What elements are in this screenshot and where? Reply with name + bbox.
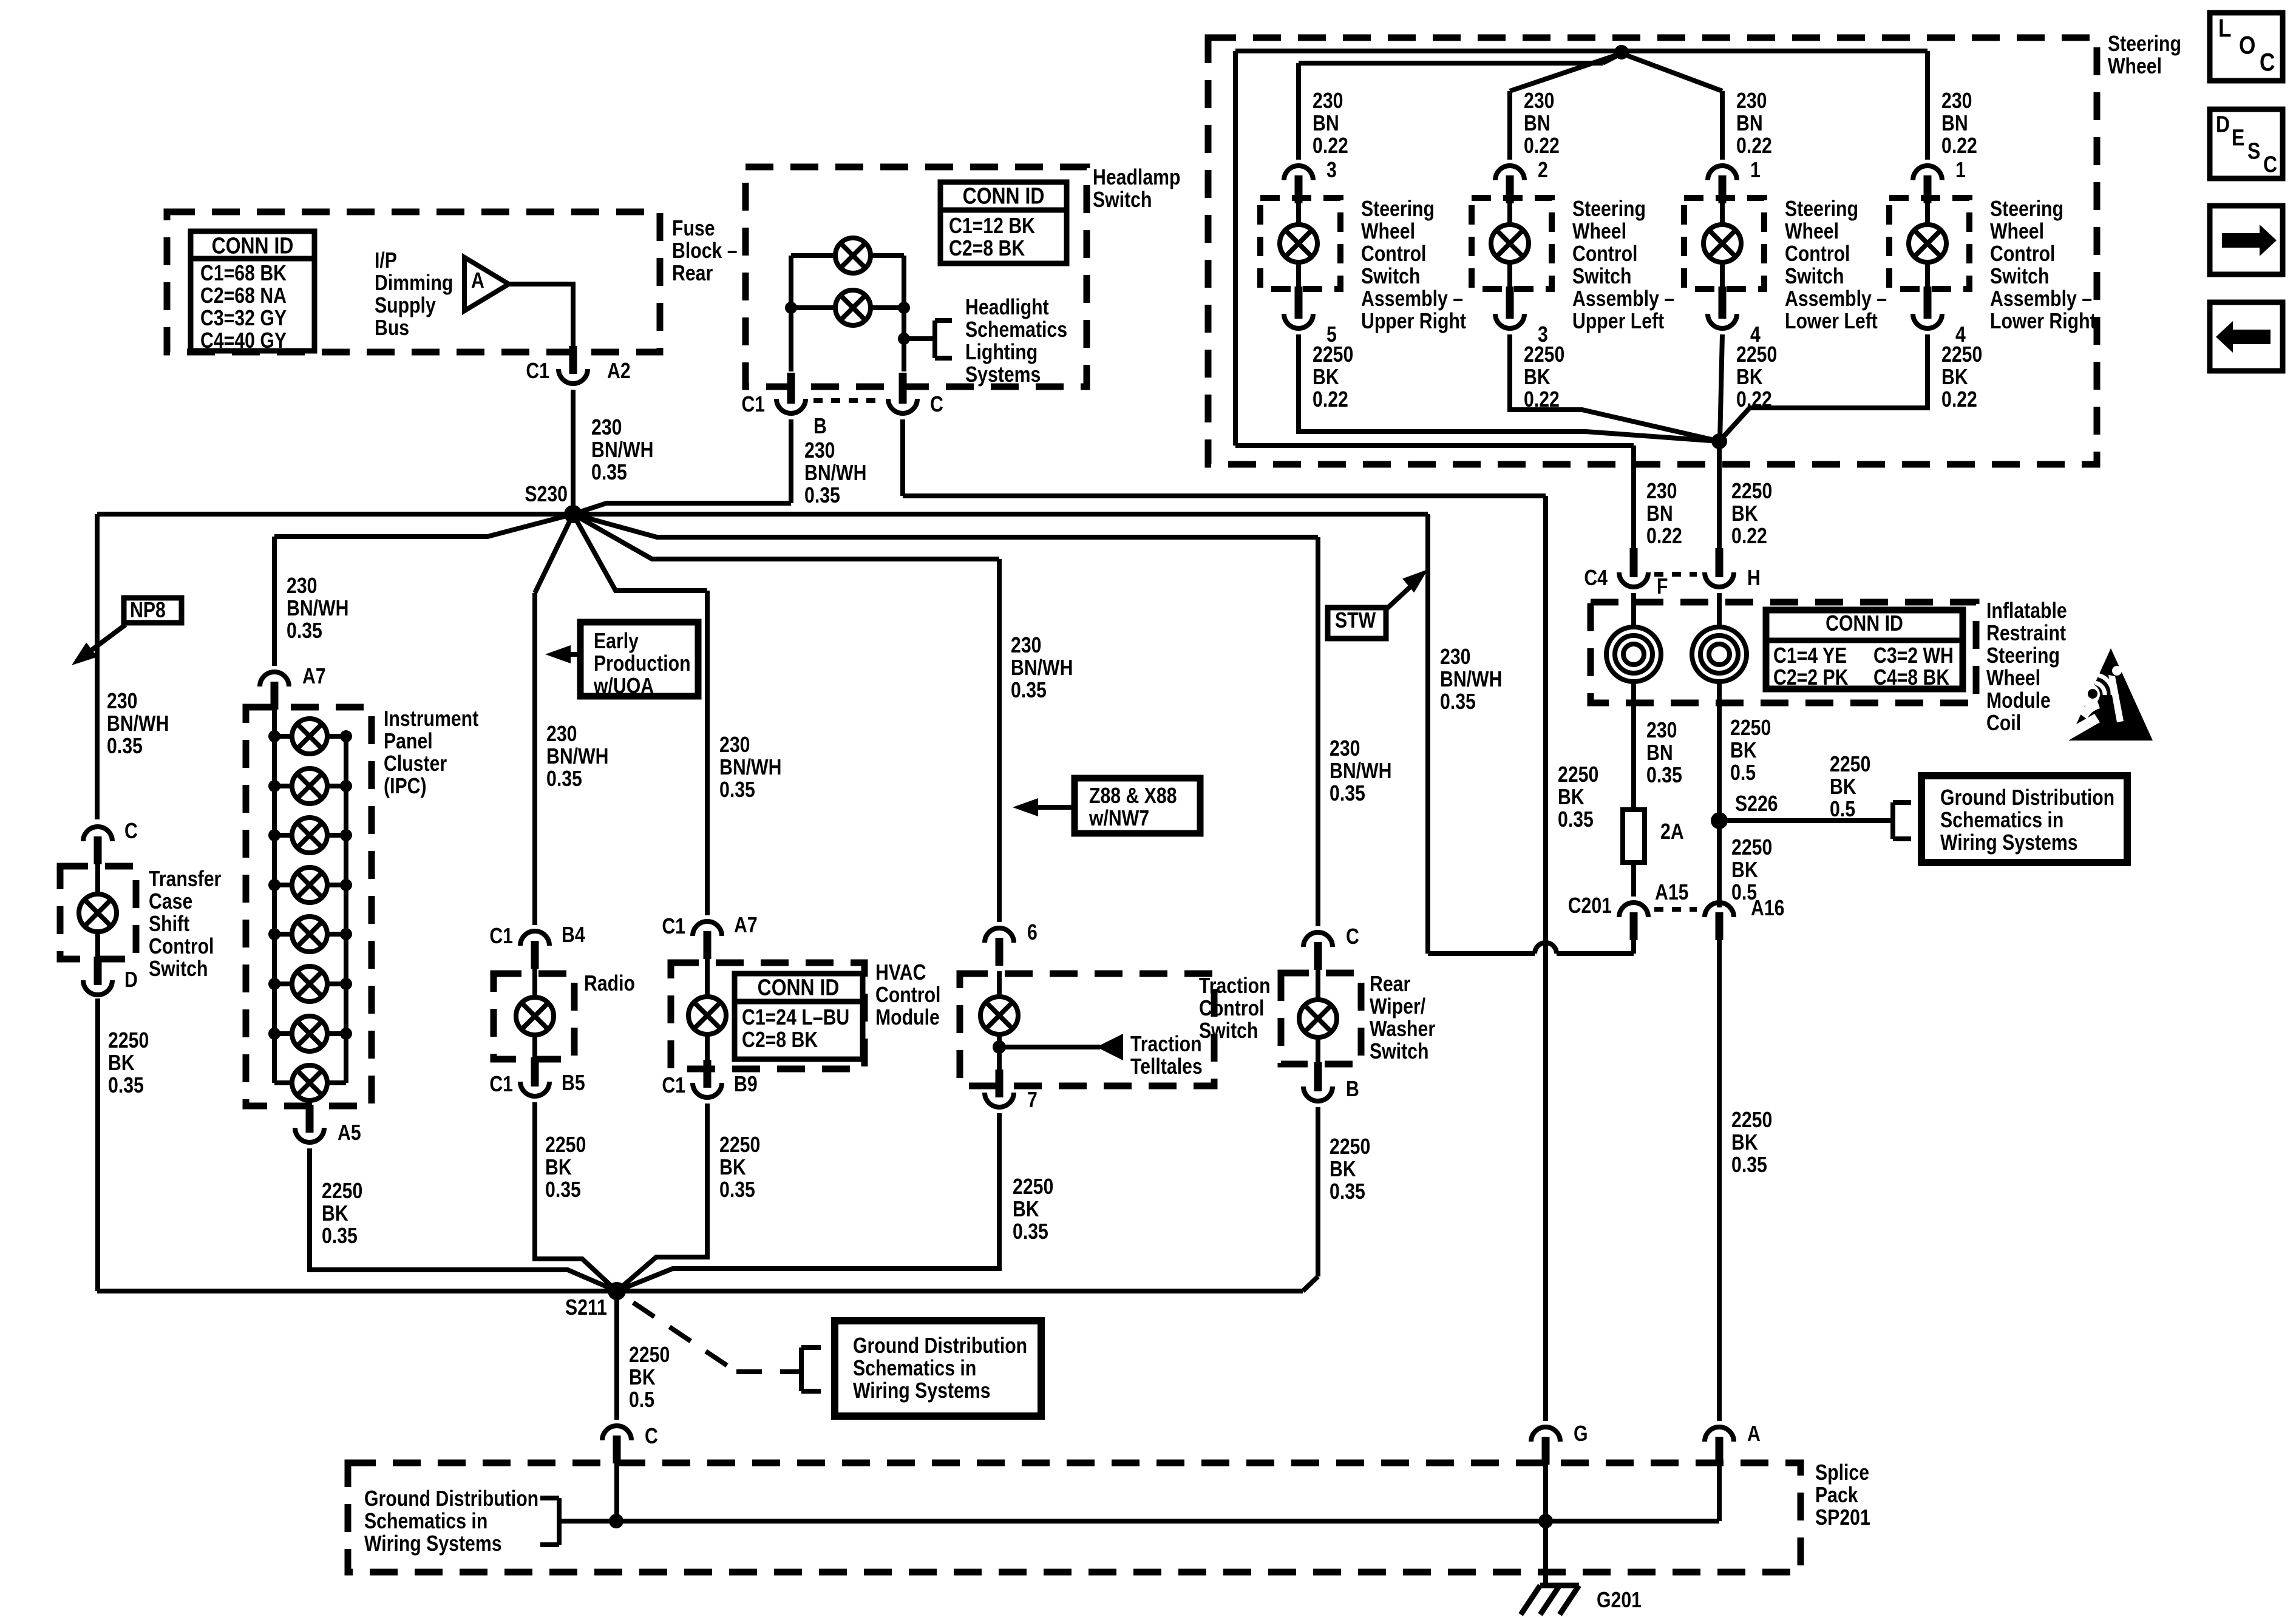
svg-text:C1: C1 — [489, 1073, 513, 1097]
svg-text:Lower Left: Lower Left — [1785, 310, 1878, 334]
svg-text:2250: 2250 — [322, 1179, 362, 1204]
svg-text:BK: BK — [1731, 502, 1758, 526]
svg-text:C1: C1 — [489, 924, 513, 949]
svg-text:BN/WH: BN/WH — [719, 756, 781, 780]
svg-text:Traction: Traction — [1199, 974, 1271, 998]
svg-text:0.22: 0.22 — [1736, 134, 1772, 158]
svg-text:2250: 2250 — [1731, 1108, 1772, 1133]
svg-text:Cluster: Cluster — [384, 752, 447, 776]
svg-text:Control: Control — [1990, 242, 2055, 266]
svg-text:Control: Control — [1361, 242, 1426, 266]
svg-text:Module: Module — [875, 1006, 940, 1030]
svg-text:HVAC: HVAC — [875, 961, 926, 985]
svg-text:230: 230 — [1524, 89, 1554, 114]
svg-text:BN/WH: BN/WH — [591, 438, 653, 463]
svg-text:BK: BK — [545, 1156, 572, 1180]
svg-text:Wheel: Wheel — [1572, 220, 1626, 244]
svg-text:1: 1 — [1750, 158, 1761, 183]
svg-text:0.35: 0.35 — [1330, 782, 1365, 806]
svg-text:2250: 2250 — [719, 1133, 760, 1158]
svg-text:Lower Right: Lower Right — [1990, 310, 2096, 334]
svg-text:0.22: 0.22 — [1941, 388, 1977, 412]
svg-text:C1=4 YE: C1=4 YE — [1773, 644, 1847, 668]
svg-text:BK: BK — [1731, 1131, 1758, 1155]
svg-text:2250: 2250 — [1731, 836, 1772, 860]
svg-text:0.35: 0.35 — [1731, 1153, 1767, 1178]
svg-text:230: 230 — [1646, 480, 1677, 504]
svg-text:C3=2 WH: C3=2 WH — [1873, 644, 1954, 668]
svg-text:BK: BK — [719, 1156, 746, 1180]
svg-text:B9: B9 — [734, 1073, 758, 1097]
svg-text:C3=32 GY: C3=32 GY — [200, 307, 287, 331]
svg-text:A: A — [1747, 1422, 1761, 1446]
svg-text:Control: Control — [1199, 997, 1264, 1021]
svg-text:0.35: 0.35 — [591, 461, 627, 485]
svg-text:Ground Distribution: Ground Distribution — [364, 1487, 538, 1511]
svg-text:(IPC): (IPC) — [384, 775, 427, 799]
svg-text:Ground Distribution: Ground Distribution — [1940, 786, 2114, 810]
svg-text:Block –: Block – — [672, 239, 738, 263]
svg-text:7: 7 — [1027, 1088, 1038, 1113]
svg-text:2250: 2250 — [1013, 1175, 1053, 1199]
svg-text:2250: 2250 — [1731, 480, 1772, 504]
svg-text:Lighting: Lighting — [965, 341, 1038, 365]
svg-text:0.35: 0.35 — [1646, 764, 1682, 788]
svg-text:B5: B5 — [562, 1071, 585, 1096]
svg-text:Washer: Washer — [1370, 1017, 1435, 1042]
svg-text:Control: Control — [149, 935, 214, 959]
svg-text:Steering: Steering — [1986, 644, 2060, 668]
svg-text:2250: 2250 — [1558, 763, 1598, 787]
svg-text:230: 230 — [1011, 634, 1041, 658]
svg-text:C2=2 PK: C2=2 PK — [1773, 666, 1849, 690]
svg-text:D: D — [124, 968, 138, 992]
svg-text:1: 1 — [1955, 158, 1966, 183]
svg-text:0.35: 0.35 — [719, 778, 755, 802]
svg-text:0.5: 0.5 — [1830, 798, 1855, 822]
svg-text:BN: BN — [1524, 112, 1550, 136]
svg-text:Assembly –: Assembly – — [1785, 287, 1887, 311]
svg-text:BK: BK — [1830, 775, 1856, 799]
svg-text:BK: BK — [1013, 1198, 1039, 1222]
svg-text:230: 230 — [1941, 89, 1972, 114]
svg-text:BK: BK — [1941, 365, 1968, 390]
svg-text:w/UQA: w/UQA — [593, 674, 654, 699]
svg-text:Switch: Switch — [1785, 265, 1844, 289]
svg-text:D: D — [2216, 112, 2230, 137]
svg-text:230: 230 — [1736, 89, 1767, 114]
svg-text:Wiring Systems: Wiring Systems — [364, 1532, 502, 1556]
svg-text:230: 230 — [1313, 89, 1343, 114]
svg-text:0.35: 0.35 — [1440, 690, 1476, 714]
svg-text:Schematics in: Schematics in — [364, 1510, 487, 1534]
svg-text:Wheel: Wheel — [1361, 220, 1415, 244]
svg-text:Steering: Steering — [1572, 197, 1646, 222]
svg-text:E: E — [2232, 125, 2244, 151]
svg-text:L: L — [2218, 15, 2232, 43]
svg-text:Wiring Systems: Wiring Systems — [1940, 831, 2078, 855]
svg-text:230: 230 — [287, 574, 317, 598]
svg-text:BK: BK — [1731, 858, 1758, 883]
svg-text:F: F — [1657, 575, 1668, 599]
svg-text:0.22: 0.22 — [1313, 388, 1348, 412]
svg-text:Transfer: Transfer — [149, 867, 221, 892]
svg-text:2: 2 — [1538, 158, 1548, 183]
svg-text:BK: BK — [108, 1051, 135, 1076]
svg-text:2250: 2250 — [1313, 343, 1353, 367]
svg-text:A15: A15 — [1655, 881, 1688, 905]
svg-text:S226: S226 — [1735, 792, 1778, 816]
svg-text:230: 230 — [107, 690, 137, 714]
svg-text:Wiring Systems: Wiring Systems — [853, 1379, 991, 1403]
svg-text:C4=40 GY: C4=40 GY — [200, 329, 287, 353]
svg-text:Assembly –: Assembly – — [1361, 287, 1463, 311]
svg-text:Control: Control — [1785, 242, 1850, 266]
svg-text:230: 230 — [591, 416, 622, 440]
svg-text:Inflatable: Inflatable — [1986, 599, 2067, 623]
svg-text:A16: A16 — [1751, 897, 1784, 921]
svg-text:A7: A7 — [302, 665, 326, 689]
svg-text:Wheel: Wheel — [2108, 55, 2162, 79]
svg-text:Module: Module — [1986, 689, 2051, 713]
svg-text:Traction: Traction — [1130, 1032, 1202, 1057]
svg-text:BK: BK — [629, 1366, 656, 1390]
svg-text:2250: 2250 — [1730, 716, 1771, 741]
svg-text:0.22: 0.22 — [1646, 524, 1682, 549]
svg-text:Splice: Splice — [1815, 1461, 1869, 1485]
svg-text:Steering: Steering — [1361, 197, 1435, 222]
svg-text:0.35: 0.35 — [1013, 1220, 1048, 1244]
svg-text:Dimming: Dimming — [375, 271, 453, 296]
svg-text:0.5: 0.5 — [629, 1388, 654, 1412]
svg-text:BN/WH: BN/WH — [1011, 656, 1073, 680]
svg-text:Headlight: Headlight — [965, 296, 1049, 320]
svg-text:C2=8 BK: C2=8 BK — [949, 237, 1025, 261]
svg-text:C1=24 L–BU: C1=24 L–BU — [742, 1006, 849, 1030]
svg-text:0.35: 0.35 — [1011, 679, 1047, 703]
svg-text:Supply: Supply — [375, 294, 436, 318]
svg-text:C2=68 NA: C2=68 NA — [200, 284, 287, 308]
svg-text:Schematics in: Schematics in — [1940, 808, 2063, 833]
svg-text:BN/WH: BN/WH — [1440, 668, 1502, 692]
svg-text:2A: 2A — [1660, 820, 1684, 844]
svg-text:230: 230 — [1440, 645, 1470, 670]
svg-text:C: C — [124, 819, 138, 844]
svg-text:C4: C4 — [1584, 566, 1608, 591]
svg-text:Wiper/: Wiper/ — [1370, 995, 1425, 1019]
svg-text:BN: BN — [1646, 502, 1673, 526]
svg-text:CONN ID: CONN ID — [963, 183, 1045, 209]
svg-text:CONN ID: CONN ID — [212, 233, 294, 259]
svg-text:Bus: Bus — [375, 316, 409, 341]
svg-text:0.35: 0.35 — [804, 484, 840, 508]
svg-text:O: O — [2239, 32, 2255, 60]
svg-text:Case: Case — [149, 890, 192, 914]
svg-text:Fuse: Fuse — [672, 217, 715, 241]
svg-text:w/NW7: w/NW7 — [1089, 807, 1149, 831]
svg-text:Switch: Switch — [1093, 188, 1152, 212]
svg-text:2250: 2250 — [1830, 753, 1870, 777]
svg-text:0.35: 0.35 — [322, 1224, 358, 1249]
svg-text:C1=68 BK: C1=68 BK — [200, 262, 287, 286]
svg-text:Telltales: Telltales — [1130, 1055, 1203, 1079]
svg-text:Pack: Pack — [1815, 1483, 1858, 1508]
svg-text:0.35: 0.35 — [545, 1178, 581, 1202]
svg-text:0.35: 0.35 — [1558, 808, 1594, 832]
svg-text:Steering: Steering — [2108, 32, 2181, 56]
svg-text:BN: BN — [1313, 112, 1339, 136]
svg-text:230: 230 — [1646, 719, 1677, 743]
svg-text:Radio: Radio — [584, 972, 635, 996]
svg-text:S211: S211 — [565, 1296, 607, 1320]
svg-text:230: 230 — [719, 733, 750, 758]
svg-text:6: 6 — [1027, 921, 1038, 945]
svg-text:0.22: 0.22 — [1524, 134, 1560, 158]
svg-text:230: 230 — [1330, 737, 1360, 761]
svg-text:Headlamp: Headlamp — [1093, 166, 1180, 190]
svg-text:Upper Left: Upper Left — [1572, 310, 1664, 334]
svg-text:0.35: 0.35 — [107, 734, 143, 759]
svg-text:BK: BK — [1524, 365, 1550, 390]
svg-text:Production: Production — [594, 652, 691, 676]
svg-text:Schematics in: Schematics in — [853, 1357, 976, 1381]
svg-text:SP201: SP201 — [1815, 1506, 1870, 1530]
svg-text:C: C — [2263, 152, 2277, 177]
svg-text:Early: Early — [594, 629, 639, 654]
svg-text:2250: 2250 — [1330, 1135, 1370, 1159]
svg-text:Wheel: Wheel — [1986, 666, 2040, 691]
svg-text:Systems: Systems — [965, 363, 1041, 387]
svg-text:C1=12 BK: C1=12 BK — [949, 214, 1035, 239]
svg-text:Panel: Panel — [384, 730, 433, 754]
svg-text:BN/WH: BN/WH — [804, 461, 866, 486]
svg-text:0.22: 0.22 — [1941, 134, 1977, 158]
svg-text:Steering: Steering — [1990, 197, 2063, 222]
svg-text:0.35: 0.35 — [546, 767, 582, 792]
svg-text:0.22: 0.22 — [1731, 524, 1767, 549]
svg-text:2250: 2250 — [629, 1343, 670, 1368]
svg-text:3: 3 — [1326, 158, 1337, 183]
svg-text:Switch: Switch — [1990, 265, 2049, 289]
svg-text:BN/WH: BN/WH — [546, 745, 608, 769]
svg-text:H: H — [1747, 566, 1761, 591]
svg-text:C1: C1 — [662, 915, 685, 939]
svg-text:C2=8 BK: C2=8 BK — [742, 1028, 818, 1053]
svg-text:A2: A2 — [607, 359, 631, 384]
svg-text:BN/WH: BN/WH — [287, 597, 348, 621]
svg-text:BN/WH: BN/WH — [1330, 759, 1391, 784]
svg-text:BK: BK — [1313, 365, 1339, 390]
svg-text:Switch: Switch — [1370, 1040, 1428, 1064]
svg-text:B: B — [813, 415, 827, 439]
svg-text:BN: BN — [1941, 112, 1968, 136]
svg-text:C: C — [930, 393, 943, 417]
svg-text:BK: BK — [1558, 785, 1584, 810]
svg-text:Wheel: Wheel — [1785, 220, 1839, 244]
svg-text:BN: BN — [1646, 741, 1673, 765]
svg-text:CONN ID: CONN ID — [758, 975, 840, 1000]
svg-text:C1: C1 — [526, 359, 549, 384]
svg-text:0.35: 0.35 — [287, 619, 322, 643]
svg-text:C: C — [645, 1425, 658, 1449]
svg-text:B: B — [1346, 1077, 1359, 1102]
svg-text:Assembly –: Assembly – — [1990, 287, 2092, 311]
svg-text:C: C — [1346, 925, 1359, 949]
svg-text:2250: 2250 — [108, 1029, 149, 1053]
svg-text:BN: BN — [1736, 112, 1763, 136]
svg-text:BK: BK — [1330, 1158, 1356, 1182]
svg-text:Z88 & X88: Z88 & X88 — [1089, 784, 1177, 808]
svg-text:Restraint: Restraint — [1986, 622, 2066, 646]
svg-text:Rear: Rear — [672, 262, 713, 286]
svg-text:A7: A7 — [734, 914, 758, 938]
svg-text:Switch: Switch — [149, 957, 208, 981]
svg-text:Switch: Switch — [1572, 265, 1631, 289]
svg-text:Instrument: Instrument — [384, 707, 478, 731]
svg-text:BK: BK — [1736, 365, 1763, 390]
svg-text:C: C — [2260, 49, 2275, 77]
svg-text:0.35: 0.35 — [719, 1178, 755, 1202]
svg-text:Shift: Shift — [149, 912, 189, 937]
svg-text:BK: BK — [322, 1202, 348, 1226]
svg-text:2250: 2250 — [1524, 343, 1564, 367]
svg-text:C4=8 BK: C4=8 BK — [1873, 666, 1949, 690]
svg-text:Control: Control — [1572, 242, 1637, 266]
svg-text:Assembly –: Assembly – — [1572, 287, 1674, 311]
svg-text:C1: C1 — [662, 1074, 685, 1098]
svg-text:Rear: Rear — [1370, 972, 1410, 997]
svg-text:B4: B4 — [562, 923, 585, 947]
svg-text:2250: 2250 — [1736, 343, 1777, 367]
svg-text:2250: 2250 — [1941, 343, 1982, 367]
svg-text:C201: C201 — [1568, 894, 1612, 918]
svg-text:A5: A5 — [338, 1121, 361, 1145]
svg-text:Ground Distribution: Ground Distribution — [853, 1334, 1027, 1358]
svg-text:NP8: NP8 — [130, 598, 166, 623]
svg-text:0.35: 0.35 — [108, 1074, 144, 1098]
svg-text:0.5: 0.5 — [1730, 761, 1756, 785]
svg-text:230: 230 — [804, 439, 835, 463]
svg-text:0.22: 0.22 — [1313, 134, 1348, 158]
svg-text:Control: Control — [875, 983, 940, 1008]
svg-text:Switch: Switch — [1361, 265, 1420, 289]
svg-text:BN/WH: BN/WH — [107, 712, 169, 736]
svg-text:STW: STW — [1335, 609, 1376, 633]
svg-text:A: A — [471, 269, 484, 293]
svg-text:I/P: I/P — [375, 249, 397, 273]
svg-text:Schematics: Schematics — [965, 318, 1067, 342]
svg-text:G201: G201 — [1597, 1588, 1642, 1613]
svg-text:G: G — [1574, 1422, 1588, 1446]
svg-text:CONN ID: CONN ID — [1826, 612, 1903, 636]
svg-text:Coil: Coil — [1986, 711, 2021, 736]
svg-text:BK: BK — [1730, 739, 1757, 763]
svg-text:230: 230 — [546, 722, 577, 747]
svg-text:Switch: Switch — [1199, 1019, 1258, 1043]
svg-text:Wheel: Wheel — [1990, 220, 2044, 244]
svg-text:S: S — [2247, 138, 2260, 164]
svg-text:Steering: Steering — [1785, 197, 1858, 222]
svg-text:Upper Right: Upper Right — [1361, 310, 1466, 334]
svg-text:C1: C1 — [741, 393, 765, 417]
svg-text:2250: 2250 — [545, 1133, 586, 1158]
svg-text:0.35: 0.35 — [1330, 1180, 1365, 1204]
svg-text:S230: S230 — [525, 483, 568, 507]
